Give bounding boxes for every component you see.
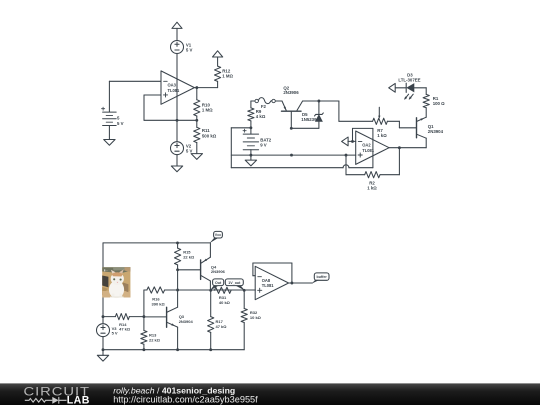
svg-text:5 V: 5 V — [117, 121, 124, 126]
svg-text:1 MΩ: 1 MΩ — [222, 73, 233, 78]
svg-text:R9: R9 — [256, 109, 262, 114]
svg-text:LAB: LAB — [67, 395, 90, 405]
svg-text:1 kΩ: 1 kΩ — [377, 133, 387, 138]
svg-text:BAT2: BAT2 — [260, 137, 272, 142]
svg-text:1 MΩ: 1 MΩ — [202, 107, 213, 112]
svg-text:47 kΩ: 47 kΩ — [119, 327, 131, 332]
svg-text:V2: V2 — [186, 143, 192, 148]
svg-text:40 kΩ: 40 kΩ — [219, 300, 231, 305]
svg-text:LTL-307EE: LTL-307EE — [398, 78, 420, 83]
svg-text:buffer: buffer — [317, 275, 328, 279]
svg-text:1 kΩ: 1 kΩ — [367, 186, 377, 191]
svg-text:OA8: OA8 — [262, 278, 271, 283]
svg-text:TL081: TL081 — [262, 283, 275, 288]
svg-text:F2: F2 — [261, 104, 267, 109]
svg-text:500 kΩ: 500 kΩ — [202, 134, 217, 139]
svg-text:5 V: 5 V — [186, 149, 193, 154]
svg-text:TL081: TL081 — [168, 88, 181, 93]
svg-text:2N3904: 2N3904 — [179, 319, 194, 324]
svg-text:22 kΩ: 22 kΩ — [149, 338, 161, 343]
svg-text:Vcc: Vcc — [215, 233, 221, 237]
svg-text:47 kΩ: 47 kΩ — [216, 324, 228, 329]
svg-text:2N3906: 2N3906 — [283, 90, 299, 95]
svg-text:2N3906: 2N3906 — [211, 269, 226, 274]
svg-text:▮·․․: ▮·․․ — [104, 269, 108, 272]
svg-text:V1: V1 — [186, 42, 192, 47]
svg-text:Out: Out — [215, 281, 222, 285]
svg-text:2N3904: 2N3904 — [428, 129, 444, 134]
svg-text:390 kΩ: 390 kΩ — [152, 302, 166, 307]
svg-text:100 Ω: 100 Ω — [433, 101, 445, 106]
svg-text:1N5239: 1N5239 — [301, 117, 317, 122]
svg-text:22 kΩ: 22 kΩ — [183, 255, 195, 260]
svg-text:4 kΩ: 4 kΩ — [256, 114, 266, 119]
svg-text:OA3: OA3 — [168, 83, 177, 88]
svg-text:http://circuitlab.com/c2aa5yb3: http://circuitlab.com/c2aa5yb3e955f — [113, 395, 258, 405]
svg-text:R11: R11 — [202, 128, 210, 133]
svg-text:9 V: 9 V — [260, 143, 267, 148]
svg-text:OA2: OA2 — [362, 143, 371, 148]
svg-text:5 V: 5 V — [186, 48, 193, 53]
svg-text:5 V: 5 V — [112, 330, 118, 335]
svg-text:1V_out: 1V_out — [228, 281, 241, 285]
svg-text:10 kΩ: 10 kΩ — [250, 315, 262, 320]
